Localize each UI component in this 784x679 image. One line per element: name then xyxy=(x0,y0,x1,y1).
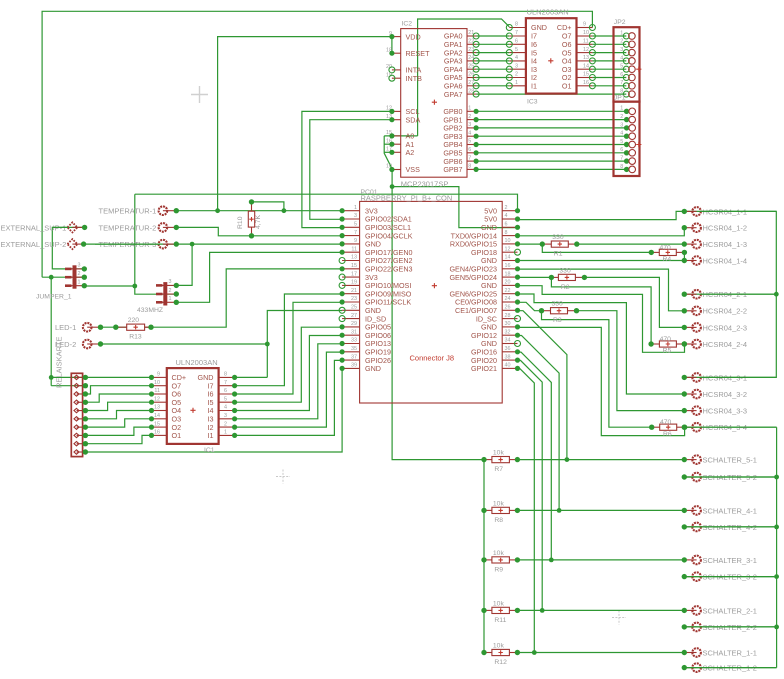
wire R3 link to R6 xyxy=(542,311,652,428)
svg-text:25: 25 xyxy=(351,305,357,311)
svg-text:16: 16 xyxy=(505,263,511,269)
RPi pin 5 GPIO03/SCL1 xyxy=(342,226,360,228)
svg-text:2: 2 xyxy=(505,205,508,211)
wire IC2 GND to IC3 GND line B xyxy=(418,19,510,136)
resistor R13 220 xyxy=(113,317,154,341)
svg-text:14: 14 xyxy=(583,63,589,69)
junction GND at VSS branch xyxy=(390,184,395,189)
wire GPA6 to I1 xyxy=(476,85,509,87)
svg-text:16: 16 xyxy=(154,430,160,436)
svg-text:R13: R13 xyxy=(129,334,142,341)
svg-text:8: 8 xyxy=(505,230,508,236)
IC2 pin 5 GPB4 xyxy=(467,144,476,146)
wire R4 to HCSR04_1-4 xyxy=(683,252,685,260)
wire RELAISKARTE pin2 stub xyxy=(51,385,85,387)
wire LED-2 row xyxy=(101,343,268,345)
wire RXD0 to R1 xyxy=(518,243,543,245)
svg-text:30: 30 xyxy=(505,321,511,327)
svg-text:29: 29 xyxy=(351,321,357,327)
IC2 pin 25 GPA4 xyxy=(467,68,476,70)
wire GPIO25 to HCSR04_3-2 TRIG xyxy=(518,294,685,394)
IC2 pin 16 A1 xyxy=(392,143,401,145)
wire RELAISKARTE pin7 to IC1 O3 xyxy=(85,419,151,427)
wire SCHALTER_1-2 to GND rail xyxy=(684,667,776,669)
svg-text:GND: GND xyxy=(365,364,381,373)
svg-text:GPIO21: GPIO21 xyxy=(471,364,497,373)
RPi pin 29 GPIO05 xyxy=(342,326,360,328)
svg-text:4: 4 xyxy=(505,213,508,219)
RELAISKARTE pin 2 xyxy=(77,385,86,387)
svg-text:ULN2003AN: ULN2003AN xyxy=(527,8,569,17)
wire R7 to SCHALTER_5-1 xyxy=(517,459,684,461)
svg-text:5: 5 xyxy=(354,222,357,228)
IC2 pin 22 GPA1 xyxy=(467,43,476,45)
junction R11 left xyxy=(482,608,487,613)
RELAISKARTE pin 9 xyxy=(77,443,86,445)
IC3 pin 13 O4 xyxy=(577,60,593,62)
svg-text:4,7K: 4,7K xyxy=(255,215,262,229)
pin TEMPERATUR-1 xyxy=(99,206,180,215)
svg-text:R2: R2 xyxy=(561,284,570,291)
svg-text:7: 7 xyxy=(620,80,623,86)
wire GPB2 to JP1 pin3 xyxy=(476,127,626,129)
svg-text:R8: R8 xyxy=(494,517,503,524)
wire SCHALTER_2-2 to GND rail xyxy=(684,626,776,628)
svg-text:9: 9 xyxy=(583,22,586,28)
svg-text:12: 12 xyxy=(154,396,160,402)
wire I3 to GPIO13 pin33 xyxy=(235,344,343,419)
IC3 pin 5 I5 xyxy=(509,52,526,54)
IC3 pin 10 O7 xyxy=(577,35,593,37)
svg-text:HCSR04_3-3: HCSR04_3-3 xyxy=(703,407,748,416)
wire GND pin39 to RELAISKARTE pin10 xyxy=(85,369,342,452)
wire GPB0 to JP1 pin1 xyxy=(476,110,626,112)
connector PC01 RASPBERRY_PI_B+_CON J8 xyxy=(339,189,520,403)
svg-text:13: 13 xyxy=(154,405,160,411)
svg-text:433MHZ: 433MHZ xyxy=(137,307,163,314)
svg-text:1: 1 xyxy=(620,30,623,36)
svg-text:10k: 10k xyxy=(493,500,505,507)
IC2 pin 13 SDA xyxy=(392,119,401,121)
wire GND rail right xyxy=(776,427,778,667)
wire R2 to HCSR04_2-3 ECHO xyxy=(584,277,684,327)
wire GPA5 to I2 xyxy=(476,77,509,79)
svg-text:JUMPER_1: JUMPER_1 xyxy=(36,294,72,301)
pin HCSR04_3-3 xyxy=(682,406,748,415)
RPi pin 28 ID_SC xyxy=(502,318,517,320)
pin HCSR04_2-1 xyxy=(682,290,748,299)
junction GND row at 192 xyxy=(190,242,195,247)
wire R13 to LED-1 xyxy=(101,326,127,328)
sheet marker cross 1 xyxy=(191,86,208,103)
RELAISKARTE pin 6 xyxy=(77,418,86,420)
IC3 pin 8 GND xyxy=(509,27,526,29)
433MHZ pin 2 xyxy=(157,293,176,295)
junction GND rail at S4-2 xyxy=(774,525,779,530)
resistor R3 330 xyxy=(539,301,579,325)
IC2 pin 18 RESET xyxy=(392,52,401,54)
wire GPIO22 to R13 xyxy=(145,269,343,327)
IC1 pin 7 I7 xyxy=(219,385,235,387)
svg-text:12: 12 xyxy=(505,246,511,252)
IC3 pin 3 I3 xyxy=(509,68,526,70)
IC3 pin 15 O2 xyxy=(577,77,593,79)
pin SCHALTER_5-2 xyxy=(682,473,757,482)
svg-text:LED-2: LED-2 xyxy=(55,340,76,349)
svg-text:3: 3 xyxy=(468,122,471,128)
JUMPER_1 pin 3 xyxy=(66,268,84,270)
pin SCHALTER_5-1 xyxy=(682,455,757,464)
junction 5V at JUMPER branch xyxy=(132,284,137,289)
IC2 pin 23 GPA2 xyxy=(467,52,476,54)
pin LED-2 xyxy=(55,340,103,349)
RPi pin 13 GPIO27/GEN2 xyxy=(342,260,360,262)
junction GND rail at S3-2 xyxy=(774,574,779,579)
svg-text:A2: A2 xyxy=(406,148,415,157)
433MHZ pin 3 xyxy=(157,284,176,286)
IC1 pin 14 O3 xyxy=(152,418,167,420)
wire 5V RPi pin4 to HCSR04_1-1 xyxy=(518,211,685,219)
wire I2 to GPIO19 pin35 xyxy=(235,352,343,427)
svg-text:R6: R6 xyxy=(663,431,672,438)
wire 5V left vertical xyxy=(135,194,177,294)
pin HCSR04_1-3 xyxy=(682,240,748,249)
connector RELAISKARTE xyxy=(55,336,89,456)
RPi pin 1 3V3 xyxy=(342,210,360,212)
svg-text:8: 8 xyxy=(515,22,518,28)
svg-text:33: 33 xyxy=(351,338,357,344)
IC2 pin 6 GPB5 xyxy=(467,152,476,154)
svg-text:3: 3 xyxy=(169,279,172,285)
wire O4 to JP2 pin4 xyxy=(592,60,626,62)
RELAISKARTE pin 1 xyxy=(77,376,86,378)
wire overlay GND row through TEMPERATUR-3 label xyxy=(95,243,160,245)
IC2 pin 3 GPB2 xyxy=(467,127,476,129)
pin TEMPERATUR-3 xyxy=(99,240,180,249)
svg-text:2: 2 xyxy=(78,271,81,277)
svg-text:21: 21 xyxy=(351,288,357,294)
RPi pin 11 GPIO17/GEN0 xyxy=(342,251,360,253)
svg-text:4: 4 xyxy=(620,131,623,137)
svg-text:1: 1 xyxy=(169,296,172,302)
RPi pin 12 GPIO18 xyxy=(502,251,517,253)
RELAISKARTE pin 5 xyxy=(77,410,86,412)
svg-text:27: 27 xyxy=(351,313,357,319)
IC1 pin 11 O6 xyxy=(152,393,167,395)
svg-text:3: 3 xyxy=(620,122,623,128)
svg-text:15: 15 xyxy=(154,421,160,427)
svg-text:3: 3 xyxy=(224,413,227,419)
RPi pin 18 GEN5/GPIO24 xyxy=(502,276,517,278)
pin HCSR04_3-2 xyxy=(682,390,748,399)
wire O5 to JP2 pin3 xyxy=(592,52,626,54)
IC3 pin 1 I1 xyxy=(509,85,526,87)
wire bus to JUMPER_1 pin2 xyxy=(42,276,84,278)
433MHZ pin 1 xyxy=(157,301,176,303)
svg-text:470: 470 xyxy=(660,419,672,426)
pin SCHALTER_1-1 xyxy=(682,648,757,657)
wire TXD0 to HCSR04_1-2 TRIG xyxy=(518,228,685,236)
JUMPER_1 pin 2 xyxy=(66,276,84,278)
IC1 pin 9 CD+ xyxy=(152,376,167,378)
RPi pin 39 GND xyxy=(342,367,360,369)
RELAISKARTE pin 10 xyxy=(77,451,86,453)
pin SCHALTER_3-1 xyxy=(682,556,757,565)
RPi pin 31 GPIO06 xyxy=(342,334,360,336)
svg-text:10k: 10k xyxy=(493,550,505,557)
svg-text:IC1: IC1 xyxy=(204,447,215,454)
svg-text:470: 470 xyxy=(660,336,672,343)
IC2 pin 12 SCL xyxy=(392,110,401,112)
svg-text:IC2: IC2 xyxy=(402,21,413,28)
wire R12 to SCHALTER_1-1 xyxy=(517,652,684,654)
IC IC2 MCP23017SP xyxy=(386,21,479,189)
RPi pin 7 GPIO04/GCLK xyxy=(342,235,360,237)
svg-text:10k: 10k xyxy=(493,600,505,607)
svg-text:14: 14 xyxy=(154,413,160,419)
wire R11 to SCHALTER_2-1 xyxy=(517,609,684,611)
svg-text:SCHALTER_1-1: SCHALTER_1-1 xyxy=(703,648,757,657)
wire GPA2 to I5 xyxy=(476,52,509,54)
RPi pin 25 GND xyxy=(342,309,360,311)
RPi pin 8 TXD0/GPIO14 xyxy=(502,235,517,237)
IC1 pin 13 O4 xyxy=(152,410,167,412)
IC2 pin 2 GPB1 xyxy=(467,119,476,121)
svg-text:I1: I1 xyxy=(531,82,537,91)
IC2 pin 24 GPA3 xyxy=(467,60,476,62)
svg-text:19: 19 xyxy=(351,280,357,286)
resistor R4 470 xyxy=(649,244,688,263)
wire 3V3 VDD rail xyxy=(218,37,392,211)
IC IC1 ULN2003AN xyxy=(149,358,237,454)
wire O1 to JP2 pin7 xyxy=(592,85,626,87)
junction bus at JUMPER_1 pin2 xyxy=(49,275,54,280)
IC1 pin 6 I6 xyxy=(219,393,235,395)
wire 5V line to RPi pin2 xyxy=(135,194,518,211)
resistor R8 10k xyxy=(481,500,520,524)
junction GND rail at S5-2 xyxy=(774,475,779,480)
svg-text:5: 5 xyxy=(468,139,471,145)
wire 3V3 row to RPi pin1 xyxy=(176,210,342,212)
junction GND at LED-2 xyxy=(265,342,270,347)
pin HCSR04_1-1 xyxy=(682,207,748,216)
IC2 pin 15 A0 xyxy=(392,135,401,137)
wire A2 stub xyxy=(384,151,392,153)
svg-text:TEMPERATUR-1: TEMPERATUR-1 xyxy=(99,207,157,216)
svg-text:2: 2 xyxy=(620,39,623,45)
svg-text:INTB: INTB xyxy=(406,74,423,83)
wire GND pin14 to HCSR04_1-4 xyxy=(518,260,685,262)
wire GPIO12 to SCHALTER_4-1 xyxy=(518,336,560,511)
svg-text:5: 5 xyxy=(224,396,227,402)
wire IC1 GND stub row xyxy=(235,376,268,378)
RPi pin 20 GND xyxy=(502,284,517,286)
wire GPIO17 to 433MHZ pin1 xyxy=(176,252,342,302)
wire O6 to JP2 pin2 xyxy=(592,43,626,45)
svg-text:SCHALTER_5-1: SCHALTER_5-1 xyxy=(703,456,757,465)
svg-text:HCSR04_3-2: HCSR04_3-2 xyxy=(703,390,748,399)
pin HCSR04_3-4 xyxy=(682,423,748,432)
wire R1 link to R4 xyxy=(542,244,651,252)
junction R12 gpio xyxy=(532,650,537,655)
wire R1 to HCSR04_1-3 ECHO xyxy=(577,243,685,245)
pin SCHALTER_4-1 xyxy=(682,506,757,515)
RPi pin 17 3V3 xyxy=(342,276,360,278)
pin HCSR04_2-4 xyxy=(682,340,748,349)
IC1 pin 5 I5 xyxy=(219,401,235,403)
IC1 pin 16 O1 xyxy=(152,434,167,436)
wire VSS GND vertical xyxy=(392,170,484,460)
wire GPIO16 to SCHALTER_3-1 xyxy=(518,352,552,560)
svg-text:SCHALTER_4-1: SCHALTER_4-1 xyxy=(703,506,757,515)
svg-text:2: 2 xyxy=(169,288,172,294)
svg-text:6: 6 xyxy=(620,72,623,78)
wire I1 to GPIO26 pin37 xyxy=(235,360,343,435)
IC1 pin 12 O5 xyxy=(152,401,167,403)
RPi pin 37 GPIO26 xyxy=(342,359,360,361)
wire RELAISKARTE pin4 to IC1 O6 xyxy=(85,394,151,402)
wire 5V branch JUMPER_1 pin1 xyxy=(84,285,135,287)
pin SCHALTER_4-2 xyxy=(682,523,757,532)
svg-text:36: 36 xyxy=(505,346,511,352)
svg-text:7: 7 xyxy=(468,155,471,161)
svg-text:28: 28 xyxy=(505,313,511,319)
svg-text:2: 2 xyxy=(468,114,471,120)
IC2 pin 4 GPB3 xyxy=(467,135,476,137)
svg-text:R11: R11 xyxy=(494,617,506,624)
IC3 pin 6 I6 xyxy=(509,43,526,45)
svg-text:4: 4 xyxy=(224,405,227,411)
svg-text:GPA7: GPA7 xyxy=(444,90,463,99)
svg-text:23: 23 xyxy=(351,296,357,302)
svg-text:4: 4 xyxy=(515,55,518,61)
svg-text:10: 10 xyxy=(154,380,160,386)
svg-text:Connector J8: Connector J8 xyxy=(410,354,455,363)
wire I7 to GPIO9 pin21 xyxy=(235,294,343,386)
RPi pin 10 RXD0/GPIO15 xyxy=(502,243,517,245)
svg-text:18: 18 xyxy=(505,271,511,277)
junction bus at RELAISKARTE pin1 xyxy=(49,375,54,380)
IC2 pin 28 GPA7 xyxy=(467,93,476,95)
junction GND rail at S2-2 xyxy=(774,625,779,630)
junction VCC rail at 2-1 xyxy=(774,292,779,297)
resistor R9 10k xyxy=(481,550,520,574)
wire O3 to JP2 pin5 xyxy=(592,68,626,70)
resistor R10 4,7K xyxy=(237,199,262,238)
JUMPER_1 pin 1 xyxy=(66,285,84,287)
wire GPIO20 to SCHALTER_2-1 xyxy=(518,360,543,610)
svg-text:5: 5 xyxy=(620,64,623,70)
IC3 pin 9 CD+ xyxy=(577,27,593,29)
svg-text:HCSR04_1-2: HCSR04_1-2 xyxy=(703,224,748,233)
svg-text:SDA: SDA xyxy=(406,115,421,124)
svg-text:7: 7 xyxy=(224,380,227,386)
junction R8 gpio xyxy=(557,508,562,513)
svg-text:HCSR04_1-3: HCSR04_1-3 xyxy=(703,240,748,249)
IC1 pin 2 I2 xyxy=(219,426,235,428)
RPi pin 22 GEN6/GPIO25 xyxy=(502,293,517,295)
svg-text:22: 22 xyxy=(505,288,511,294)
RPi pin 15 GPIO22/GEN3 xyxy=(342,268,360,270)
svg-text:5: 5 xyxy=(515,47,518,53)
IC3 pin 14 O3 xyxy=(577,68,593,70)
wire RELAISKARTE pin6 to IC1 O4 xyxy=(85,411,151,419)
RPi pin 35 GPIO19 xyxy=(342,351,360,353)
RPi pin 23 GPIO11/SCLK xyxy=(342,301,360,303)
svg-text:38: 38 xyxy=(505,354,511,360)
RPi pin 2 5V0 xyxy=(502,210,517,212)
IC IC3 ULN2003AN xyxy=(506,8,595,106)
pin HCSR04_1-2 xyxy=(682,223,748,232)
wire SCHALTER_3-2 to GND rail xyxy=(684,576,776,578)
svg-text:220: 220 xyxy=(128,317,140,324)
svg-text:9: 9 xyxy=(157,372,160,378)
wire RELAISKARTE pin5 to IC1 O5 xyxy=(85,402,151,410)
svg-text:330: 330 xyxy=(552,301,564,308)
svg-text:10: 10 xyxy=(505,238,511,244)
connector JP2 xyxy=(614,19,642,102)
wire HCSR04_3-4 row to GND rail xyxy=(685,426,777,428)
IC3 pin 2 I2 xyxy=(509,77,526,79)
svg-text:R7: R7 xyxy=(494,466,503,473)
resistor R2 330 xyxy=(549,267,587,291)
wire VCC rail right xyxy=(684,211,776,377)
svg-text:HCSR04_2-4: HCSR04_2-4 xyxy=(703,340,748,349)
svg-text:4: 4 xyxy=(620,55,623,61)
pin SCHALTER_2-2 xyxy=(682,623,757,632)
svg-text:R3: R3 xyxy=(553,317,562,324)
IC3 pin 7 I7 xyxy=(509,35,526,37)
svg-text:RASPBERRY_PI_B+_CON: RASPBERRY_PI_B+_CON xyxy=(361,194,453,203)
RPi pin 14 GND xyxy=(502,260,517,262)
junction 3V3 at R10 xyxy=(282,208,287,213)
RPi pin 19 GPIO10/MOSI xyxy=(342,284,360,286)
RPi pin 27 ID_SD xyxy=(342,318,360,320)
IC2 pin 9 VDD xyxy=(392,36,401,38)
wire RELAISKARTE pin8 to IC1 O2 xyxy=(85,427,151,435)
svg-text:4: 4 xyxy=(468,130,471,136)
svg-text:470: 470 xyxy=(660,244,672,251)
wire CE0 to R3 xyxy=(518,302,542,310)
wire GPA1 to I6 xyxy=(476,43,509,45)
wire R9 to SCHALTER_3-1 xyxy=(517,559,684,561)
pin LED-1 xyxy=(55,323,103,332)
wire RELAISKARTE pin3 to IC1 O7 xyxy=(85,386,151,394)
svg-text:VDD: VDD xyxy=(406,32,421,41)
wire GPA3 to I4 xyxy=(476,60,509,62)
wire RELAISKARTE pin1 row xyxy=(51,376,151,378)
svg-text:39: 39 xyxy=(351,363,357,369)
pin EXTERNAL_SUP-1 xyxy=(1,222,88,232)
svg-text:R1: R1 xyxy=(554,251,563,258)
wire R10 top to 3V3 xyxy=(252,202,284,211)
IC1 pin 10 O7 xyxy=(152,385,167,387)
wire GPB7 to JP1 pin8 xyxy=(476,168,626,170)
resistor R1 330 xyxy=(540,234,580,258)
svg-text:3: 3 xyxy=(515,63,518,69)
svg-text:O1: O1 xyxy=(172,431,182,440)
RPi pin 3 GPIO02/SDA1 xyxy=(342,218,360,220)
svg-text:R10: R10 xyxy=(237,216,244,229)
wire GPB3 to JP1 pin4 xyxy=(476,135,626,137)
wire GPB1 to JP1 pin2 xyxy=(476,119,626,121)
svg-text:10k: 10k xyxy=(493,643,505,650)
junction R9 left xyxy=(482,558,487,563)
svg-text:10: 10 xyxy=(583,30,589,36)
svg-text:12: 12 xyxy=(583,47,589,53)
IC1 pin 1 I1 xyxy=(219,434,235,436)
svg-text:3: 3 xyxy=(78,263,81,269)
